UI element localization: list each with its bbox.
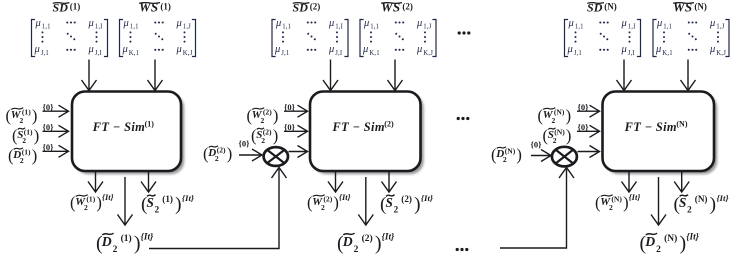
arrow FT-Sim2 W output [335,172,337,192]
svg-text:K,J: K,J [423,50,433,57]
label input (D2^(N))^{0} [491,140,542,165]
block FT-Sim2 [310,92,421,172]
svg-text:2: 2 [394,205,399,215]
matrix WSN vdots col1 [663,31,665,33]
svg-text:WS: WS [673,0,693,14]
label output (W2^(2))^{It} [307,192,351,212]
svg-text:(1): (1) [22,108,31,117]
svg-text:1,1: 1,1 [575,23,584,30]
svg-text:S: S [386,195,393,210]
svg-text:1,1: 1,1 [663,23,672,30]
svg-text:2: 2 [155,205,160,215]
label SD^(1) title [53,0,81,14]
svg-text:μ: μ [328,44,334,55]
svg-text:μ: μ [176,44,182,55]
matrix WS2 vdots col3 [424,31,426,33]
matrix WS2 left bracket [360,20,364,57]
matrix WS2 right bracket [432,20,436,57]
arrow W input to FT-Sim1 [43,110,68,112]
matrix WSN right bracket [725,20,729,57]
svg-text:K,1: K,1 [369,50,380,57]
svg-text:{0}: {0} [578,122,590,132]
svg-text:): ) [32,106,38,125]
matrix SDN cdots row1 [599,21,601,23]
svg-text:): ) [516,145,522,164]
svg-text:S: S [679,195,686,210]
svg-text:FT − Sim: FT − Sim [332,120,385,134]
arrowhead into multiplier XN [559,168,574,179]
svg-text:(2): (2) [323,195,332,204]
label input (W2^(N))^{0} [538,102,590,125]
svg-text:): ) [134,232,141,254]
svg-text:D: D [101,234,112,249]
matrix WSN vdots col3 [717,31,719,33]
wire D1 output to multiplier X2 [149,169,279,249]
label output (S2^(N))^{It} [674,193,729,215]
matrix WSN left bracket [653,20,657,57]
matrix SDN cdots row3 [599,49,601,51]
svg-text:μ: μ [362,44,368,55]
matrix WS1 cdots row3 [154,49,156,51]
multiplier X2 [264,147,288,166]
svg-text:1,J: 1,J [716,23,724,30]
label WS^(1) title [139,0,171,14]
matrix WS1 cdots row1 [154,21,156,23]
matrix SD1 cdots row3 [66,49,68,51]
svg-text:μ: μ [328,18,334,29]
svg-text:μ: μ [274,44,280,55]
svg-text:(N): (N) [554,128,565,137]
svg-text:(N): (N) [695,194,708,204]
label WS^(N) title [673,0,707,14]
svg-text:μ: μ [709,44,715,55]
svg-text:(N): (N) [554,108,565,117]
matrix SD1 cdots row1 [66,21,68,23]
svg-text:): ) [680,232,687,254]
svg-text:(1): (1) [22,148,31,157]
svg-text:2: 2 [687,205,692,215]
svg-text:(N): (N) [604,2,617,12]
label input (S2^(N))^{0} [543,122,590,145]
arrow S input to FT-Sim2 [284,130,307,132]
svg-text:μ: μ [416,18,422,29]
svg-text:J,1: J,1 [41,50,49,57]
label WS^(2) title [381,0,413,14]
arrow SDN to FT-SimN [623,60,625,90]
label input (W2^(1))^{0} [6,102,55,125]
arrow FT-SimN D output [658,177,660,224]
ellipsis top between stages [458,31,471,34]
matrix SD1 vdots col3 [96,31,98,33]
svg-text:): ) [175,194,181,215]
svg-text:μ: μ [275,18,281,29]
arrow WS2 to FT-Sim2 [394,60,396,90]
svg-text:1,1: 1,1 [42,23,51,30]
label FT-Sim1 title [92,120,154,134]
matrix WS1 vdots col3 [184,31,186,33]
label input (S2^(1))^{0} [12,122,54,145]
svg-text:μ: μ [656,18,662,29]
svg-text:(N): (N) [611,195,622,204]
svg-text:2: 2 [503,155,507,164]
label output (D2^(2))^{It} [337,232,395,255]
svg-text:): ) [32,146,38,165]
arrow D input to multiplier X2 [239,154,261,156]
matrix WSN ddots [688,33,690,35]
svg-text:μ: μ [88,18,94,29]
svg-text:{It}: {It} [421,193,433,203]
svg-text:μ: μ [567,44,573,55]
svg-text:2: 2 [609,203,613,212]
svg-text:μ: μ [123,18,129,29]
svg-text:): ) [566,126,572,145]
svg-text:2: 2 [215,154,219,163]
block FT-Sim1 shadow [75,95,184,175]
svg-text:1,I: 1,I [335,23,343,30]
svg-text:2: 2 [552,116,556,125]
label output (D2^(N))^{It} [640,232,700,255]
svg-text:1,I: 1,I [628,23,636,30]
svg-text:(2): (2) [310,2,321,12]
svg-text:FT − Sim: FT − Sim [624,120,677,134]
matrix WS2 ddots [395,33,397,35]
svg-text:1,1: 1,1 [130,23,139,30]
svg-text:2: 2 [84,203,88,212]
matrix WS1 right bracket [192,20,196,57]
svg-text:(1): (1) [70,2,81,12]
svg-text:1,J: 1,J [183,23,191,30]
label SD^(2) title [293,0,321,14]
multiplier XN [552,147,577,167]
svg-text:J,1: J,1 [281,50,289,57]
ellipsis bottom after D2^(2) [456,248,469,251]
label output (W2^(1))^{It} [70,192,114,212]
svg-text:): ) [414,194,420,215]
svg-text:(2): (2) [263,128,272,137]
svg-text:D: D [644,234,655,249]
matrix SD2 vdots col1 [282,31,284,33]
matrix WS1 vdots col1 [130,31,132,33]
arrow FT-Sim1 D output [124,177,126,224]
arrow FT-Sim2 S output [388,172,390,192]
svg-text:(1): (1) [145,120,155,129]
arrow W input to FT-Sim2 [284,110,307,112]
svg-text:{It}: {It} [339,192,351,202]
svg-text:WS: WS [139,0,159,14]
svg-text:): ) [34,126,40,145]
svg-text:(N): (N) [664,233,677,244]
svg-text:2: 2 [22,136,26,145]
matrix SD2 cdots row1 [307,21,309,23]
matrix WSN cdots row1 [688,21,690,23]
svg-text:): ) [273,106,279,125]
svg-text:J,1: J,1 [574,50,582,57]
matrix SDN right bracket [637,20,641,57]
label output (W2^(N))^{It} [595,192,640,212]
arrow FT-SimN W output [628,172,630,192]
matrix SD1 left bracket [32,20,36,57]
svg-text:{0}: {0} [43,142,55,152]
svg-text:μ: μ [416,44,422,55]
svg-text:(1): (1) [24,128,33,137]
svg-text:FT − Sim: FT − Sim [92,120,145,134]
svg-text:(N): (N) [676,120,687,129]
arrow S input to FT-Sim1 [43,130,68,132]
svg-text:(2): (2) [263,108,272,117]
svg-text:(1): (1) [121,233,132,244]
svg-text:{It}: {It} [102,192,114,202]
svg-text:1,I: 1,I [95,23,103,30]
arrow FT-Sim1 W output [95,172,97,192]
arrow multiplier XN to FT-SimN [578,151,599,153]
label output (S2^(1))^{It} [141,193,194,215]
svg-text:2: 2 [354,245,359,255]
svg-text:(2): (2) [401,194,412,204]
svg-text:{It}: {It} [182,193,194,203]
svg-text:J,I: J,I [628,50,636,57]
svg-text:μ: μ [621,18,627,29]
svg-text:μ: μ [88,44,94,55]
svg-text:(2): (2) [362,233,373,244]
svg-text:K,J: K,J [183,50,193,57]
svg-text:{It}: {It} [629,192,641,202]
arrow FT-Sim2 D output [365,177,367,224]
svg-text:(1): (1) [86,195,95,204]
label FT-Sim2 title [332,120,394,134]
arrow S input to FT-SimN [577,130,599,132]
svg-text:(N): (N) [505,147,516,156]
label input (D2^(1))^{0} [8,142,54,165]
svg-text:μ: μ [568,18,574,29]
svg-text:μ: μ [621,44,627,55]
svg-text:K,J: K,J [716,50,726,57]
matrix SD1 vdots col1 [42,31,44,33]
matrix SDN vdots col3 [629,31,631,33]
matrix SD2 cdots row3 [307,49,309,51]
svg-text:2: 2 [20,156,24,165]
svg-text:K,1: K,1 [662,50,673,57]
label output (S2^(2))^{It} [380,193,433,215]
svg-text:J,I: J,I [95,50,103,57]
svg-text:μ: μ [34,44,40,55]
svg-text:1,1: 1,1 [370,23,379,30]
arrow multiplier X2 to FT-Sim2 [289,151,307,153]
arrow WS1 to FT-Sim1 [154,60,156,90]
svg-text:1,1: 1,1 [282,23,291,30]
matrix WS2 cdots row1 [395,21,397,23]
svg-text:μ: μ [35,18,41,29]
svg-text:{0}: {0} [531,140,543,150]
svg-text:): ) [273,126,279,145]
arrow WSN to FT-SimN [687,60,689,90]
arrow SD1 to FT-Sim1 [88,60,90,90]
svg-text:J,I: J,I [335,50,343,57]
svg-text:2: 2 [553,136,557,145]
label SD^(N) title [587,0,617,14]
label input (S2^(2))^{0} [251,122,296,145]
svg-text:μ: μ [176,18,182,29]
svg-text:D: D [342,234,353,249]
arrow W input to FT-SimN [577,110,599,112]
svg-text:): ) [375,232,382,254]
svg-text:μ: μ [122,44,128,55]
matrix SDN ddots [600,33,602,35]
svg-text:{0}: {0} [284,122,296,132]
svg-text:2: 2 [321,203,325,212]
label input (D2^(2))^{0} [203,139,250,164]
label FT-SimN title [624,120,688,134]
wire from ellipsis to multiplier XN [500,169,567,248]
svg-text:S: S [147,195,154,210]
svg-text:2: 2 [20,116,24,125]
matrix SD1 right bracket [104,20,108,57]
block FT-SimN shadow [606,95,718,175]
arrow SD2 to FT-Sim2 [330,60,332,90]
svg-text:2: 2 [656,245,661,255]
svg-text:{0}: {0} [239,139,251,149]
svg-text:(2): (2) [402,2,413,12]
svg-text:μ: μ [363,18,369,29]
arrow FT-SimN S output [681,172,683,192]
svg-text:(2): (2) [384,120,394,129]
svg-text:(1): (1) [162,194,173,204]
matrix SDN vdots col1 [575,31,577,33]
matrix WS1 left bracket [120,20,124,57]
matrix SD2 right bracket [344,20,348,57]
svg-text:μ: μ [709,18,715,29]
matrix SDN left bracket [565,20,569,57]
svg-text:K,1: K,1 [129,50,140,57]
arrow FT-Sim1 S output [148,172,150,192]
svg-text:WS: WS [381,0,401,14]
block FT-SimN [603,92,715,172]
arrowhead into multiplier X2 [272,168,287,179]
svg-text:μ: μ [655,44,661,55]
matrix SD2 left bracket [272,20,276,57]
block FT-Sim2 shadow [313,95,424,175]
svg-text:2: 2 [261,136,265,145]
svg-text:1,J: 1,J [423,23,431,30]
arrow D input to FT-Sim1 [43,150,68,152]
label input (W2^(2))^{0} [247,102,296,125]
svg-text:(2): (2) [217,146,226,155]
svg-text:2: 2 [261,116,265,125]
svg-text:{It}: {It} [141,233,154,243]
matrix SD2 ddots [307,33,309,35]
svg-text:{0}: {0} [43,122,55,132]
matrix SD1 ddots [67,33,69,35]
matrix SD2 vdots col3 [336,31,338,33]
svg-text:2: 2 [113,245,118,255]
ellipsis middle between stages [457,117,470,120]
arrow D input to multiplier XN [531,155,550,157]
block FT-Sim1 [72,92,181,172]
matrix WSN cdots row3 [688,49,690,51]
svg-text:): ) [227,144,233,163]
matrix WS2 vdots col1 [370,31,372,33]
svg-text:): ) [566,106,572,125]
label output (D2^(1))^{It} [96,232,154,255]
svg-text:{It}: {It} [382,233,395,243]
matrix WS2 cdots row3 [395,49,397,51]
svg-text:(N): (N) [694,2,707,12]
matrix WS1 ddots [155,33,157,35]
svg-text:(1): (1) [160,2,171,12]
svg-text:{It}: {It} [716,193,728,203]
svg-text:{It}: {It} [686,233,699,243]
svg-text:): ) [710,194,716,215]
